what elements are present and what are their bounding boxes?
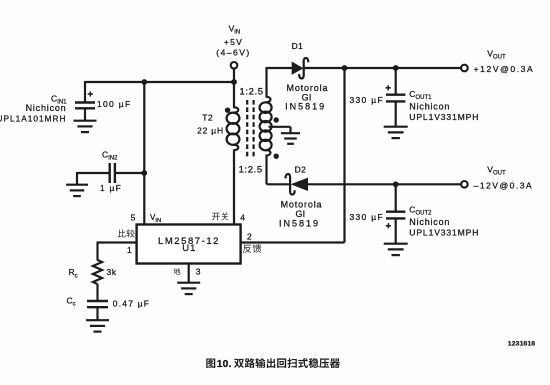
svg-text:1:2.5: 1:2.5 xyxy=(240,87,264,98)
ground CC xyxy=(86,319,109,321)
wire vertical rail to pin 5 xyxy=(143,82,145,225)
svg-text:1:2.5: 1:2.5 xyxy=(239,165,263,176)
svg-text:+12V@0.3A: +12V@0.3A xyxy=(474,64,535,74)
svg-text:VIN: VIN xyxy=(229,24,241,36)
node CIN2 junction xyxy=(141,170,147,176)
wire secondary bottom rail to D2 xyxy=(267,183,291,185)
svg-text:U1: U1 xyxy=(182,243,196,254)
label feedback fankui xyxy=(243,245,251,253)
svg-text:COUT2: COUT2 xyxy=(409,204,432,216)
svg-text:COUT1: COUT1 xyxy=(409,89,432,101)
wire feedback from pin 2 xyxy=(241,241,345,243)
svg-text:–12V@0.3A: –12V@0.3A xyxy=(474,180,534,190)
svg-text:VIN: VIN xyxy=(150,213,161,224)
svg-text:Rc: Rc xyxy=(69,267,78,279)
svg-text:Nichicon: Nichicon xyxy=(409,102,450,112)
svg-text:10.: 10. xyxy=(217,359,232,370)
svg-text:UPL1V331MPH: UPL1V331MPH xyxy=(409,112,479,122)
svg-text:+5V: +5V xyxy=(224,37,243,47)
svg-text:330 µF: 330 µF xyxy=(350,95,384,105)
transformer T2 primary xyxy=(227,82,240,225)
svg-text:(4–6V): (4–6V) xyxy=(216,48,251,58)
transformer T2 secondary xyxy=(260,67,272,184)
wire RC to CC xyxy=(96,284,98,301)
svg-text:Nichicon: Nichicon xyxy=(409,217,450,227)
polarity plus COUT1 xyxy=(386,87,391,89)
diode D1 xyxy=(292,62,304,75)
svg-text:2: 2 xyxy=(247,232,252,242)
capacitor CIN2 xyxy=(77,172,109,174)
svg-text:5: 5 xyxy=(131,212,136,222)
svg-text:IN5819: IN5819 xyxy=(279,218,320,228)
node feedback junction xyxy=(342,65,348,71)
svg-text:330 µF: 330 µF xyxy=(350,212,384,222)
svg-text:D1: D1 xyxy=(292,41,304,51)
transformer T2 dot primary xyxy=(225,108,230,113)
ground COUT2 xyxy=(384,243,408,245)
transformer T2 dot secondary bottom xyxy=(274,154,279,159)
svg-text:CIN2: CIN2 xyxy=(102,149,118,161)
terminal -12V xyxy=(461,181,468,188)
ground IC pin3 xyxy=(177,282,200,284)
resistor RC xyxy=(93,260,102,284)
diode D2 xyxy=(291,178,308,191)
svg-text:1: 1 xyxy=(127,245,132,255)
caption figure 10 xyxy=(206,358,340,370)
svg-text:3: 3 xyxy=(196,267,201,277)
transformer T2 core xyxy=(246,100,248,159)
wire top input rail xyxy=(85,81,234,83)
polarity plus CIN1 xyxy=(88,93,93,95)
label ground di xyxy=(174,268,181,275)
transformer T2 dot secondary top xyxy=(274,117,279,122)
svg-text:0.47 µF: 0.47 µF xyxy=(113,298,150,308)
node COUT1 junction xyxy=(393,65,399,71)
wire D2 to -12V terminal xyxy=(308,183,461,185)
node VIN junction xyxy=(231,79,237,85)
svg-text:T2: T2 xyxy=(202,112,213,122)
label compare bijiao xyxy=(118,230,126,238)
wire center tap xyxy=(269,126,291,128)
svg-text:UPL1A101MRH: UPL1A101MRH xyxy=(0,113,67,123)
wire secondary top rail to D1 xyxy=(267,67,293,69)
ground COUT1 xyxy=(384,126,408,128)
wire VIN terminal to junction xyxy=(233,69,235,82)
ground CIN2 xyxy=(66,184,88,186)
capacitor CIN1 xyxy=(75,101,95,103)
svg-text:VOUT: VOUT xyxy=(487,48,506,60)
svg-text:IN5819: IN5819 xyxy=(285,102,326,112)
svg-text:22 µH: 22 µH xyxy=(197,125,224,135)
svg-text:VOUT: VOUT xyxy=(487,164,506,176)
op-amp U1 box LM2587-12 xyxy=(137,225,241,264)
svg-text:UPL1V331MPH: UPL1V331MPH xyxy=(409,228,479,238)
ground CIN1 xyxy=(74,120,97,122)
pin 3 stub xyxy=(188,264,190,283)
polarity plus COUT2 xyxy=(386,225,391,227)
label switch kaiguan xyxy=(212,213,220,221)
terminal +12V xyxy=(461,65,468,72)
svg-text:1 µF: 1 µF xyxy=(100,183,122,193)
svg-text:Cc: Cc xyxy=(67,295,76,307)
svg-text:100 µF: 100 µF xyxy=(97,99,131,109)
wire CIN1 top lead xyxy=(84,81,86,103)
svg-text:4: 4 xyxy=(240,212,245,222)
node COUT2 junction xyxy=(393,181,399,187)
svg-text:D2: D2 xyxy=(295,164,307,174)
wire D1 to +12V terminal xyxy=(304,67,462,69)
VIN terminal xyxy=(231,62,238,69)
capacitor COUT1 xyxy=(395,68,397,95)
node junction top rail to pin5 xyxy=(141,79,147,85)
wire pin 1 xyxy=(98,241,137,243)
capacitor CC xyxy=(87,300,108,302)
svg-text:3k: 3k xyxy=(107,267,117,277)
capacitor COUT2 xyxy=(395,184,397,211)
svg-text:1231616: 1231616 xyxy=(508,341,536,348)
svg-text:Nichicon: Nichicon xyxy=(26,103,67,113)
wire CIN2 ground stub xyxy=(76,172,78,185)
ground center tap xyxy=(281,132,300,134)
